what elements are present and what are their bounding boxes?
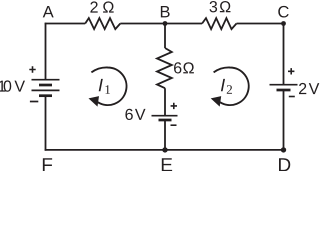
label R2 value 3 [210, 1, 218, 12]
wire battery V3 down to node D [283, 90, 285, 151]
resistor R3 6 ohm vertical zigzag [157, 48, 172, 88]
battery V3 2 V plates [270, 85, 298, 90]
resistor R2 3 ohm zigzag [202, 18, 236, 29]
battery V1 plus sign [29, 66, 35, 72]
wire bottom node F to node E to node D [45, 149, 285, 151]
node B label [161, 6, 170, 17]
label 2 V digit 2 [299, 83, 306, 94]
wire node A to resistor R1 [45, 23, 85, 25]
node E label [162, 158, 172, 171]
battery V2 plus sign [171, 103, 177, 109]
wire resistor R2 to node C [237, 23, 285, 25]
wire resistor R1 to node B [120, 23, 165, 25]
node B junction dot [163, 21, 168, 26]
label R3 value 6 [174, 62, 181, 73]
wire node B down to resistor R3 [164, 24, 166, 49]
label I2 letter I [221, 79, 225, 91]
label R3 unit ohm [183, 62, 194, 73]
label 6 V letter V [135, 109, 146, 120]
loop current I1 arrowhead [89, 96, 100, 107]
battery V2 minus sign [171, 124, 177, 126]
wire battery V2 down to node E [164, 120, 166, 150]
loop current I2 arc [214, 67, 249, 105]
node F label [43, 158, 52, 171]
label 10 V digit 1 [0, 81, 6, 92]
label 10 V letter V [14, 81, 25, 92]
label R2 unit ohm [220, 1, 231, 12]
resistor R1 2 ohm zigzag [85, 18, 120, 29]
loop current I2 arrowhead [211, 96, 222, 107]
battery V2 6 V plates [152, 116, 178, 120]
wire node A down to battery V1 [45, 23, 47, 80]
label 2 V letter V [309, 83, 320, 94]
loop current I1 arc [91, 67, 126, 105]
label R1 value 2 [90, 1, 97, 12]
label I2 subscript 2 [227, 85, 232, 94]
battery V3 plus sign [288, 68, 294, 74]
node C label [278, 6, 288, 18]
label 6 V digit 6 [125, 109, 132, 120]
node D junction dot [281, 147, 286, 152]
node C junction dot [281, 21, 286, 26]
wire node B to resistor R2 [165, 23, 202, 25]
label 10 V digit 0 [4, 80, 12, 91]
label I1 letter I [99, 79, 103, 91]
node A label [43, 6, 54, 17]
label I1 subscript 1 [105, 85, 110, 94]
battery V3 minus sign [289, 96, 295, 98]
node D label [279, 158, 290, 171]
label R1 unit ohm [103, 1, 114, 12]
node E junction dot [162, 147, 167, 152]
wire node C down to battery V3 [283, 23, 285, 85]
wire battery V1 down to node F [45, 96, 47, 151]
wire resistor R3 down to battery V2 [164, 88, 166, 116]
battery V1 10 V plates [32, 80, 60, 96]
battery V1 minus sign [30, 101, 38, 103]
